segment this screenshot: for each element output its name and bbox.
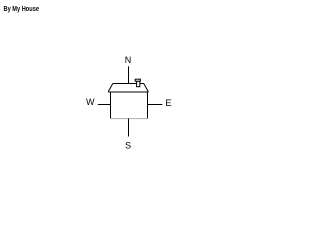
roof eave — [108, 91, 148, 93]
wire: E line — [148, 104, 163, 106]
svg-text:W: W — [86, 97, 95, 107]
wire: W line — [98, 104, 111, 106]
house bottom edge — [110, 118, 148, 120]
roof left slant — [108, 83, 113, 91]
house left wall — [110, 92, 112, 119]
svg-text:By My House: By My House — [4, 4, 40, 13]
roof top edge — [113, 83, 144, 85]
roof right slant — [144, 83, 149, 92]
chimney body — [137, 81, 140, 87]
svg-text:S: S — [125, 140, 131, 150]
house right wall — [147, 92, 149, 119]
chimney cap — [135, 79, 140, 81]
wire: N pole — [128, 66, 130, 83]
svg-text:N: N — [125, 55, 132, 65]
wire: S line — [128, 119, 130, 137]
svg-text:E: E — [165, 98, 171, 109]
